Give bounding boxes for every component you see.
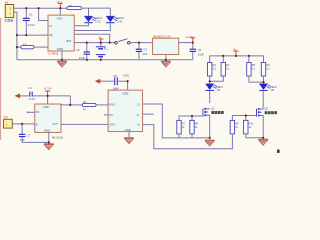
svg-text:N: N [137,114,139,117]
svg-text:GP1: GP1 [109,123,115,127]
svg-text:C2: C2 [76,48,80,52]
svg-text:VDD: VDD [123,74,130,78]
svg-text:太阳能: 太阳能 [4,17,13,22]
svg-text:+3.3V: +3.3V [185,35,193,39]
svg-text:5.1: 5.1 [252,68,256,71]
svg-text:104: 104 [143,52,148,56]
svg-text:NC: NC [36,111,40,114]
svg-text:+5 V: +5 V [56,0,62,4]
svg-text:IC 8918: IC 8918 [48,51,58,55]
svg-text:R1: R1 [69,4,73,8]
svg-text:15P: 15P [20,138,25,142]
svg-text:L2: L2 [137,123,141,127]
svg-text:CE: CE [49,34,53,37]
svg-text:5.1: 5.1 [213,68,217,71]
svg-text:C6: C6 [198,48,202,52]
svg-text:5.1: 5.1 [266,68,270,71]
svg-text:C 4: C 4 [28,86,33,90]
svg-text:10uF: 10uF [79,56,86,60]
svg-text:2.0C: 2.0C [95,20,101,24]
svg-text:LX: LX [49,25,52,28]
svg-text:NC: NC [109,114,113,117]
svg-text:GND: GND [125,128,131,132]
svg-text:VDD: VDD [43,105,49,109]
svg-text:BAT: BAT [66,39,72,43]
svg-text:R2: R2 [83,100,87,104]
svg-text:1W: 1W [217,89,221,92]
svg-text:R10: R10 [249,123,254,126]
svg-text:10uF: 10uF [198,53,205,57]
svg-text:C7: C7 [27,134,31,138]
svg-text:L1: L1 [137,102,141,106]
svg-text:B 1: B 1 [104,46,109,50]
svg-text:P0.0: P0.0 [109,102,115,106]
svg-text:OUT: OUT [53,123,59,126]
svg-text:VDD: VDD [57,16,63,20]
svg-text:GND: GND [57,47,63,51]
svg-text:C8: C8 [113,74,117,78]
svg-text:Q2: Q2 [264,107,268,111]
svg-text:VDD: VDD [122,92,128,96]
svg-text:10 4F: 10 4F [28,97,35,101]
svg-text:60-2118: 60-2118 [52,136,63,140]
svg-text:Q1: Q1 [211,106,215,110]
svg-text:+3.3 V: +3.3 V [44,86,52,90]
svg-text:5.1: 5.1 [226,68,230,71]
svg-text:0.1uF: 0.1uF [28,23,35,27]
svg-text:2.0C: 2.0C [117,20,123,24]
svg-text:L1: L1 [23,42,27,46]
svg-text:1W: 1W [270,89,274,92]
svg-text:GND: GND [44,129,50,133]
svg-text:C1: C1 [29,13,33,17]
